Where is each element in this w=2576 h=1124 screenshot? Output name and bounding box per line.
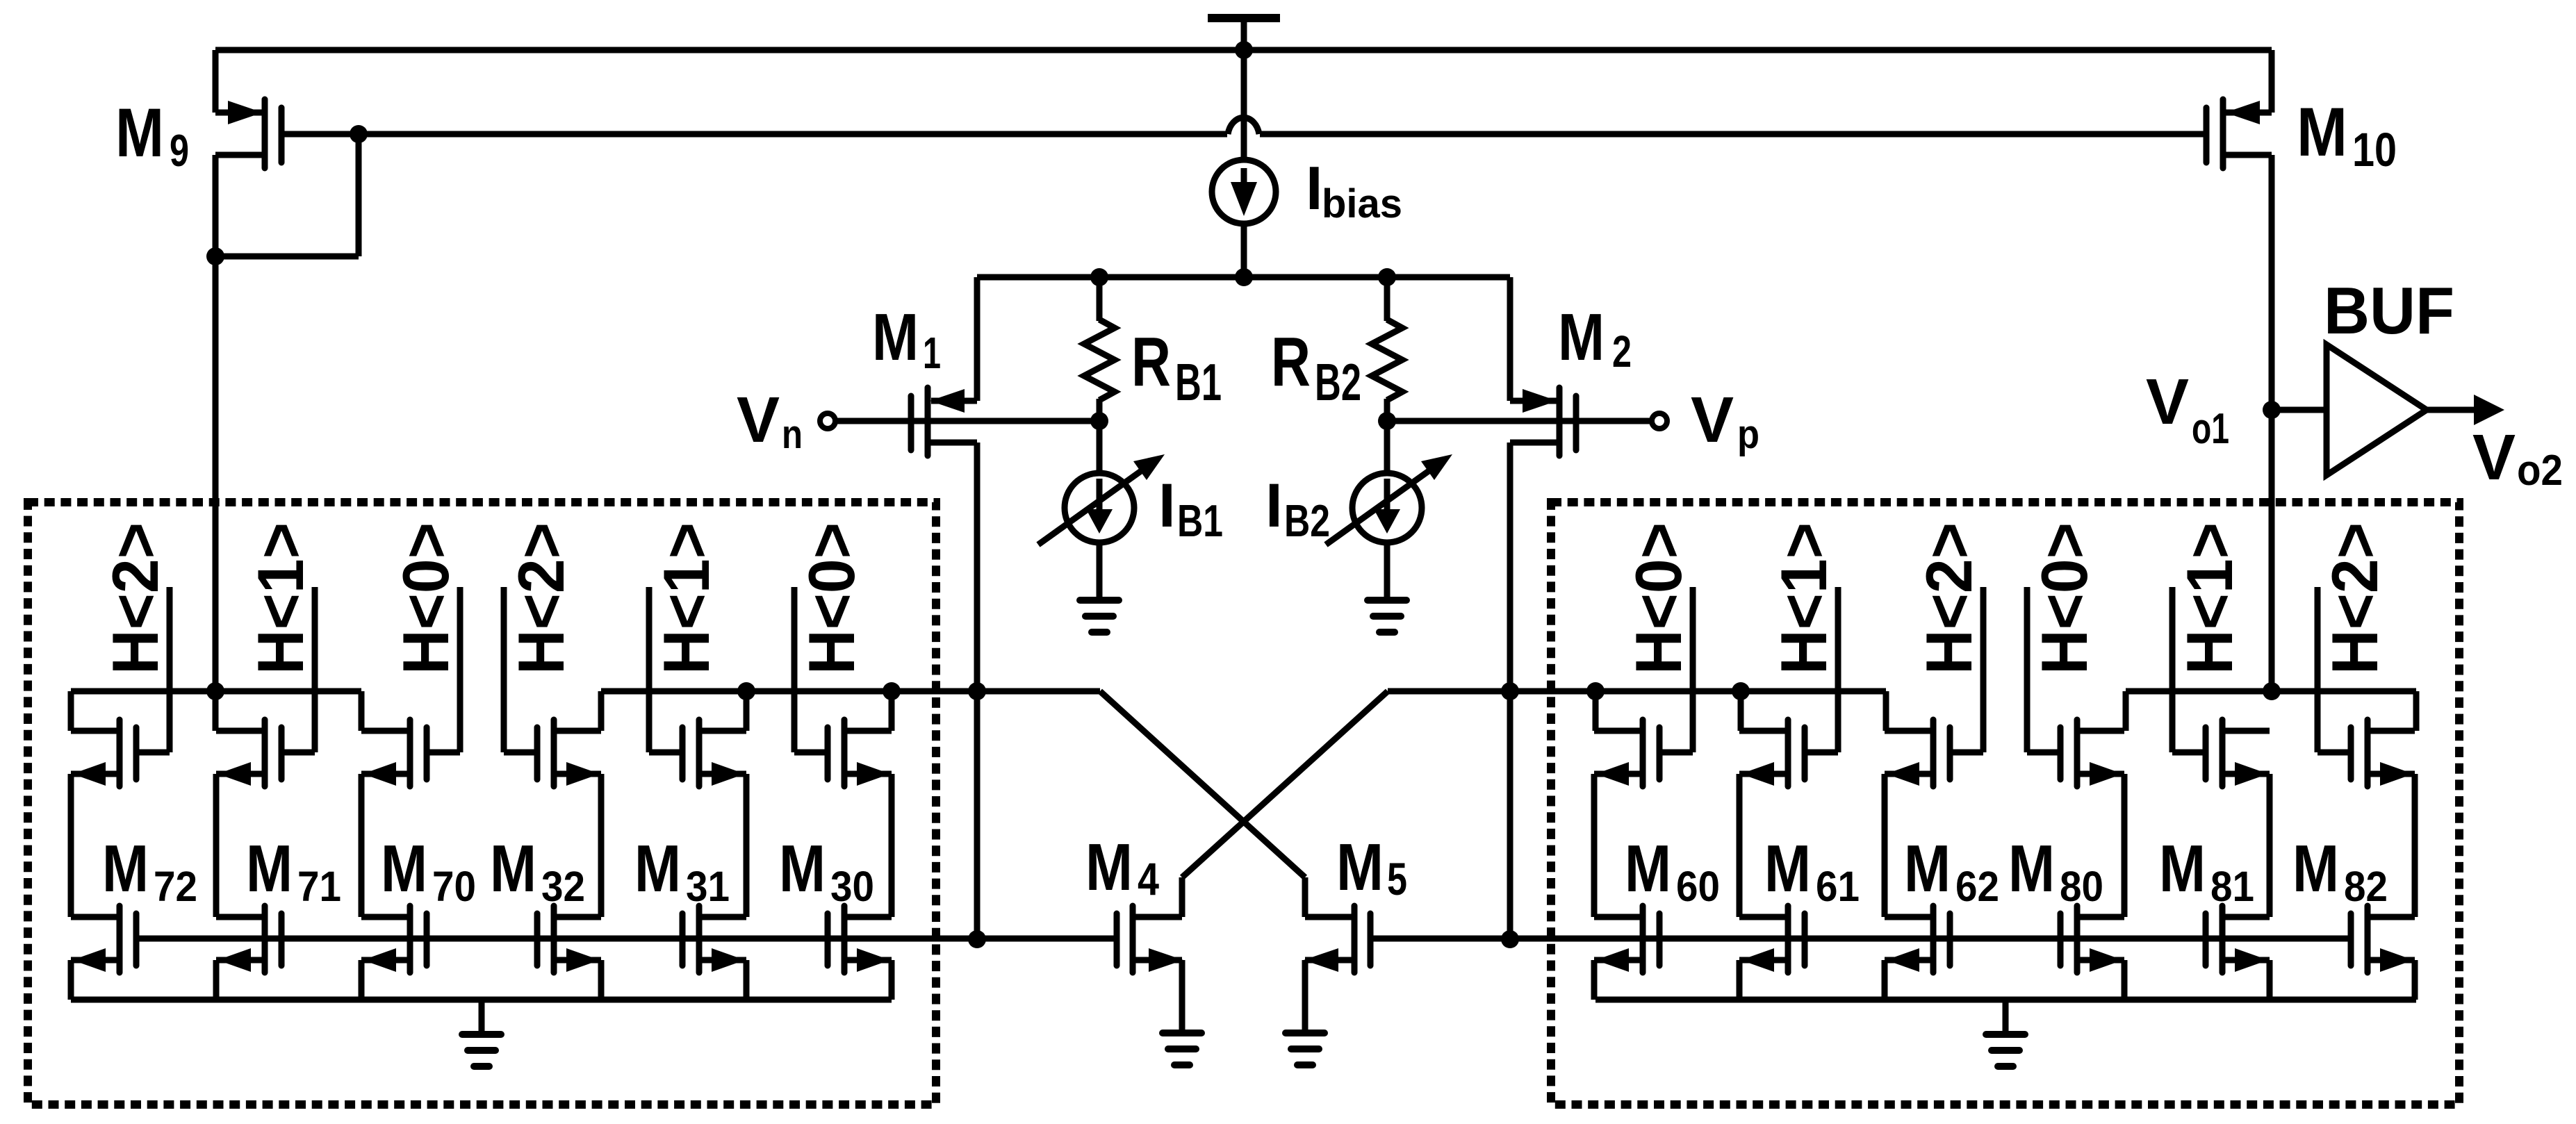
terminal Vp: [1652, 413, 1667, 429]
current source IB2: [1326, 421, 1452, 597]
wire M80 source: [2122, 960, 2128, 1000]
svg-text:M: M: [490, 832, 536, 906]
label M2: [1558, 300, 1632, 377]
node dot M5 gate rail: [1501, 930, 1519, 948]
svg-text:61: 61: [1816, 863, 1860, 910]
svg-text:31: 31: [686, 863, 730, 910]
wire M60 internal node: [1591, 774, 1598, 917]
wire M70 source: [359, 960, 365, 1000]
wire M82 source: [2412, 960, 2418, 1000]
transistor M32: [537, 906, 601, 973]
label M31: [634, 832, 730, 910]
svg-text:M: M: [872, 300, 919, 374]
node dot M1 drain / left array: [968, 682, 986, 700]
label M61: [1764, 832, 1860, 910]
transistor M61 (cascode): [1739, 720, 1838, 786]
svg-text:H<1>: H<1>: [1767, 522, 1840, 675]
wire M32 source: [598, 960, 605, 1000]
svg-text:71: 71: [297, 863, 341, 910]
svg-text:9: 9: [170, 125, 189, 176]
svg-text:M: M: [102, 832, 149, 906]
wire M2 gate line: [1387, 418, 1652, 424]
svg-text:H<2>: H<2>: [99, 522, 172, 675]
wire M82 internal node: [2412, 774, 2418, 917]
svg-text:30: 30: [830, 863, 874, 910]
label M82: [2292, 832, 2388, 910]
svg-text:o2: o2: [2517, 447, 2563, 495]
transistor M81: [2206, 906, 2270, 973]
wire M70 gate: [457, 587, 463, 752]
wire Ibias to tail node: [1241, 222, 1247, 277]
label M10: [2297, 93, 2397, 176]
wire M4 drain cross-couple: [1182, 691, 1388, 877]
svg-text:M: M: [2297, 93, 2347, 170]
transistor M70 (cascode): [361, 720, 460, 786]
wire M71 source: [213, 960, 220, 1000]
wire M31 gate: [646, 587, 653, 752]
label Vp: [1691, 383, 1759, 457]
label M80: [2008, 832, 2103, 910]
wire M31 source: [744, 960, 750, 1000]
label M61 gate H&lt;1&gt;: [1767, 522, 1840, 675]
label M5: [1336, 830, 1407, 904]
wire M10 drain to Vo1: [2269, 155, 2275, 691]
svg-text:M: M: [115, 94, 164, 171]
node dot M61 drain: [1732, 682, 1750, 700]
svg-text:B2: B2: [1284, 495, 1330, 546]
svg-text:80: 80: [2060, 863, 2103, 910]
wire M81 gate: [2169, 587, 2176, 752]
svg-text:M: M: [1336, 830, 1384, 904]
svg-text:I: I: [1158, 470, 1176, 540]
transistor M30 (cascode): [794, 720, 892, 786]
svg-text:H<1>: H<1>: [244, 522, 317, 675]
label M72 gate H&lt;2&gt;: [99, 522, 172, 675]
label M82 gate H&lt;2&gt;: [2318, 522, 2391, 675]
wire M32 internal node: [598, 774, 605, 917]
svg-text:M: M: [2159, 832, 2206, 906]
svg-text:H<0>: H<0>: [2028, 522, 2101, 675]
transistor M4: [1117, 877, 1183, 1030]
svg-text:H<1>: H<1>: [650, 522, 723, 675]
wire M61 gate: [1835, 587, 1841, 752]
wire M80 gate: [2024, 587, 2031, 752]
svg-text:M: M: [2008, 832, 2055, 906]
wire tail node bar: [977, 274, 1510, 281]
svg-text:bias: bias: [1322, 181, 1402, 226]
wire Vo1 to buffer: [2272, 407, 2327, 413]
svg-text:H<0>: H<0>: [795, 522, 868, 675]
ground IB2: [1368, 600, 1406, 632]
label M62: [1904, 832, 1999, 910]
label Vo1: [2146, 365, 2229, 453]
node dot M30 drain: [883, 682, 901, 700]
transistor M80 (cascode): [2027, 720, 2124, 786]
svg-text:B1: B1: [1175, 353, 1222, 411]
svg-text:10: 10: [2352, 123, 2397, 176]
transistor M31: [682, 906, 746, 973]
label M60: [1625, 832, 1720, 910]
svg-text:M: M: [779, 832, 826, 906]
label M62 gate H&lt;2&gt;: [1912, 522, 1985, 675]
transistor M62 (cascode): [1885, 720, 1983, 786]
wire left array rail A: [71, 691, 361, 731]
wire Vo2 output: [2427, 395, 2504, 425]
wire M30 gate: [791, 587, 798, 752]
ground IB1: [1080, 600, 1119, 632]
transistor M32 (cascode): [504, 720, 601, 786]
wire M61 internal node: [1737, 774, 1743, 917]
transistor M71: [216, 906, 281, 973]
wire M32 gate: [501, 587, 507, 752]
transistor M72: [71, 906, 136, 973]
node dot M2 drain / right array: [1501, 682, 1519, 700]
label M81: [2159, 832, 2254, 910]
svg-text:V: V: [737, 383, 780, 456]
node dot VDD tap: [1235, 41, 1253, 59]
svg-text:B2: B2: [1315, 353, 1361, 411]
node dot M2 gate / RB2: [1378, 412, 1396, 430]
svg-text:4: 4: [1138, 853, 1159, 904]
wire M30 source: [889, 960, 895, 1000]
label IB2: [1265, 470, 1330, 546]
label RB2: [1271, 323, 1361, 411]
svg-text:81: 81: [2210, 863, 2254, 910]
svg-text:82: 82: [2344, 863, 2388, 910]
label Ibias: [1306, 154, 1402, 226]
label BUF: [2324, 274, 2454, 348]
ground M5: [1286, 1033, 1324, 1065]
svg-text:32: 32: [541, 863, 585, 910]
wire VDD rail: [215, 47, 2272, 53]
transistor M5: [1304, 877, 1370, 1030]
wire right drain node bar: [1388, 688, 1510, 695]
wire right array rail B: [2126, 691, 2416, 731]
wire M5 drain cross-couple: [1100, 691, 1305, 877]
svg-text:H<1>: H<1>: [2173, 522, 2246, 675]
svg-text:M: M: [381, 832, 427, 906]
wire M80 internal node: [2122, 774, 2128, 917]
transistor M71 (cascode): [216, 720, 315, 786]
label M9: [115, 94, 189, 176]
transistor M10: [2206, 50, 2272, 168]
node A dot M9 drain node: [206, 247, 224, 265]
wire M61 source: [1737, 960, 1743, 1000]
wire M71 internal node: [213, 774, 220, 917]
node dot M1 gate / RB1: [1090, 412, 1108, 430]
label M32: [490, 832, 585, 910]
node dot M31 drain: [737, 682, 755, 700]
svg-text:H<2>: H<2>: [504, 522, 577, 675]
transistor M60 (cascode): [1594, 720, 1693, 786]
svg-text:72: 72: [154, 863, 197, 910]
transistor M82: [2351, 906, 2415, 973]
svg-text:V: V: [2146, 365, 2189, 438]
resistor RB1: [1084, 277, 1115, 421]
resistor RB2: [1372, 277, 1402, 421]
svg-text:V: V: [2472, 421, 2516, 493]
label M70 gate H&lt;0&gt;: [389, 522, 462, 675]
svg-text:V: V: [1691, 383, 1734, 456]
wire M71 gate: [312, 587, 318, 752]
label M71: [246, 832, 341, 910]
current source Ibias: [1212, 160, 1276, 224]
transistor M2: [1510, 277, 1576, 456]
ground left array: [462, 1000, 501, 1066]
node dot RB1 top: [1090, 268, 1108, 286]
wire M9 drain to left array: [213, 256, 219, 691]
wire right array source rail: [1595, 997, 2416, 1003]
transistor M60: [1594, 906, 1659, 973]
svg-text:I: I: [1306, 154, 1322, 222]
svg-text:p: p: [1737, 412, 1759, 457]
label Vo2: [2472, 421, 2563, 495]
svg-text:M: M: [1558, 300, 1605, 374]
wire M5 gate rail: [1370, 936, 2351, 942]
wire VDD to Ibias: [1241, 50, 1247, 161]
svg-text:M: M: [1904, 832, 1951, 906]
wire right array rail A: [1510, 691, 1886, 731]
transistor M70: [361, 906, 427, 973]
label IB1: [1158, 470, 1223, 546]
svg-text:B1: B1: [1177, 495, 1223, 546]
svg-text:M: M: [1085, 830, 1133, 904]
transistor M1: [911, 277, 977, 456]
label M1: [872, 300, 941, 378]
svg-text:H<0>: H<0>: [1622, 522, 1695, 675]
svg-text:H<0>: H<0>: [389, 522, 462, 675]
buffer BUF: [2327, 345, 2427, 475]
label RB1: [1131, 323, 1222, 411]
node dot M9 wire to rail: [206, 682, 224, 700]
wire M62 source: [1882, 960, 1888, 1000]
wire M1 gate line: [835, 418, 1099, 424]
transistor M62: [1885, 906, 1950, 973]
wire M72 source: [68, 960, 74, 1000]
wire M30 internal node: [889, 774, 895, 917]
label M60 gate H&lt;0&gt;: [1622, 522, 1695, 675]
svg-text:1: 1: [923, 328, 941, 378]
label M70: [381, 832, 476, 910]
node dot M4 gate rail: [968, 930, 986, 948]
transistor M81 (cascode): [2172, 720, 2270, 786]
svg-text:I: I: [1265, 470, 1283, 540]
svg-text:n: n: [782, 412, 803, 457]
svg-text:BUF: BUF: [2324, 274, 2454, 348]
wire M81 source: [2267, 960, 2273, 1000]
label M80 gate H&lt;0&gt;: [2028, 522, 2101, 675]
current source IB1: [1038, 421, 1165, 597]
node dot RB2 top: [1378, 268, 1396, 286]
label M30: [779, 832, 874, 910]
wire M4 gate rail: [136, 936, 1117, 942]
svg-text:M: M: [1764, 832, 1811, 906]
ground M4: [1163, 1033, 1201, 1065]
svg-text:M: M: [1625, 832, 1671, 906]
transistor M80: [2060, 906, 2124, 973]
node dot Vo1: [2263, 401, 2281, 419]
node dot Ibias tail: [1235, 268, 1253, 286]
boundary right array box: [1551, 502, 2459, 1105]
terminal Vn: [820, 413, 835, 429]
node dot M9 gate-drain tie: [350, 125, 368, 143]
label M81 gate H&lt;1&gt;: [2173, 522, 2246, 675]
wire M81 internal node: [2267, 774, 2273, 917]
svg-text:70: 70: [432, 863, 476, 910]
wire M62 gate: [1980, 587, 1987, 752]
wire left drain node bar: [977, 688, 1100, 695]
wire M72 gate: [167, 587, 173, 752]
svg-text:2: 2: [1612, 327, 1632, 377]
wire M31 internal node: [744, 774, 750, 917]
wire left array rail B: [601, 691, 1100, 731]
transistor M72 (cascode): [71, 720, 170, 786]
node dot M10 wire to rail: [2263, 682, 2281, 700]
svg-text:M: M: [246, 832, 293, 906]
transistor M31 (cascode): [649, 720, 746, 786]
transistor M9: [215, 50, 281, 168]
label M30 gate H&lt;0&gt;: [795, 522, 868, 675]
label Vn: [737, 383, 803, 457]
label M4: [1085, 830, 1159, 904]
node dot M60 drain: [1586, 682, 1605, 700]
power VDD symbol: [1208, 18, 1280, 50]
wire M9 gate rail to M10: [284, 117, 2204, 134]
boundary left array box: [28, 502, 936, 1105]
wire M1 drain: [974, 443, 981, 939]
label M71 gate H&lt;1&gt;: [244, 522, 317, 675]
svg-text:60: 60: [1676, 863, 1720, 910]
svg-text:5: 5: [1387, 853, 1407, 904]
svg-text:H<2>: H<2>: [1912, 522, 1985, 675]
wire M60 gate: [1690, 587, 1696, 752]
svg-text:M: M: [634, 832, 681, 906]
label M31 gate H&lt;1&gt;: [650, 522, 723, 675]
svg-text:H<2>: H<2>: [2318, 522, 2391, 675]
svg-text:62: 62: [1955, 863, 1999, 910]
wire M70 internal node: [359, 774, 365, 917]
wire M82 gate: [2315, 587, 2321, 752]
svg-text:M: M: [2292, 832, 2339, 906]
ground right array: [1986, 1000, 2025, 1066]
label M72: [102, 832, 197, 910]
transistor M30: [828, 906, 892, 973]
label M32 gate H&lt;2&gt;: [504, 522, 577, 675]
wire M60 source: [1591, 960, 1598, 1000]
wire M2 drain: [1507, 443, 1513, 939]
transistor M61: [1739, 906, 1805, 973]
svg-text:R: R: [1131, 323, 1171, 401]
transistor M82 (cascode): [2317, 720, 2415, 786]
wire M62 internal node: [1882, 774, 1888, 917]
wire M72 internal node: [68, 774, 74, 917]
svg-text:o1: o1: [2192, 405, 2229, 453]
wire M9 diode connection: [215, 134, 359, 256]
svg-text:R: R: [1271, 323, 1311, 401]
wire left array source rail: [71, 997, 892, 1003]
